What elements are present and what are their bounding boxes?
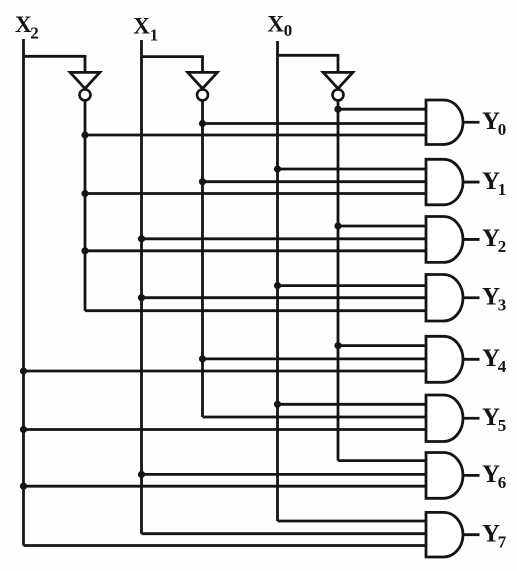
svg-text:5: 5 bbox=[498, 416, 507, 435]
svg-text:X: X bbox=[267, 12, 284, 37]
svg-text:4: 4 bbox=[498, 357, 507, 376]
svg-text:0: 0 bbox=[498, 120, 507, 139]
svg-text:1: 1 bbox=[150, 26, 159, 45]
svg-text:X: X bbox=[133, 14, 150, 39]
svg-text:2: 2 bbox=[498, 237, 507, 256]
svg-text:3: 3 bbox=[498, 296, 507, 315]
svg-text:0: 0 bbox=[284, 21, 293, 40]
svg-text:2: 2 bbox=[30, 24, 39, 43]
svg-text:6: 6 bbox=[498, 473, 507, 492]
svg-text:1: 1 bbox=[498, 180, 507, 199]
svg-text:7: 7 bbox=[498, 533, 507, 552]
